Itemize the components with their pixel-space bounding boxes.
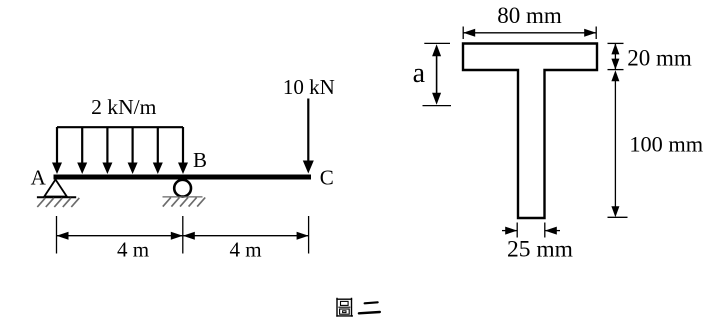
a dimension — [424, 42, 450, 44]
distributed load arrow 3 — [102, 127, 112, 174]
svg-text:10 kN: 10 kN — [283, 75, 335, 99]
distributed load arrow 6 — [178, 127, 188, 174]
svg-text:2 kN/m: 2 kN/m — [91, 95, 157, 119]
二 bottom stroke — [359, 312, 380, 313]
ground line at A — [37, 196, 76, 198]
圖 middle stroke — [338, 306, 350, 308]
100 mm dimension — [611, 70, 619, 81]
svg-text:B: B — [193, 148, 207, 172]
caption 圖二 (drawn glyphs) — [336, 298, 380, 317]
svg-text:100 mm: 100 mm — [629, 132, 703, 157]
svg-text:a: a — [413, 58, 426, 89]
80 mm dimension ticks — [462, 27, 464, 40]
svg-text:80 mm: 80 mm — [497, 3, 562, 28]
20 mm dimension — [608, 42, 624, 44]
distributed load arrow 1 — [52, 127, 62, 174]
roller support at B (circle) — [174, 180, 191, 197]
distributed load arrow 5 — [153, 127, 163, 174]
svg-text:4 m: 4 m — [229, 238, 261, 262]
svg-text:C: C — [320, 166, 334, 190]
hatching at B — [163, 198, 205, 207]
T cross-section outline — [463, 44, 597, 219]
dim arrowheads at B — [171, 232, 183, 240]
pin support at A (triangle) — [44, 180, 67, 197]
圖 inner top 口 — [341, 301, 349, 305]
dimension tick at A — [56, 216, 58, 254]
dim arrowhead left at A — [57, 232, 69, 240]
dimension line A-C — [57, 235, 309, 237]
point load 10 kN arrow — [303, 99, 314, 174]
圖 outer box — [336, 298, 353, 317]
80 mm dimension line — [463, 32, 596, 34]
distributed load arrow 4 — [128, 127, 138, 174]
svg-text:25 mm: 25 mm — [507, 237, 573, 263]
25 mm dimension ticks — [516, 223, 518, 238]
svg-text:4 m: 4 m — [117, 238, 149, 262]
hatching at A — [37, 198, 79, 207]
25 mm dimension arrows — [502, 230, 517, 232]
dimension tick at C — [308, 216, 310, 254]
beam AC — [54, 175, 312, 180]
svg-text:20 mm: 20 mm — [627, 46, 692, 71]
distributed load arrow 2 — [77, 127, 87, 174]
ground line at B — [163, 196, 203, 198]
dimension tick at B — [182, 216, 184, 254]
distributed load 2 kN/m top line — [57, 126, 183, 128]
圖 lower 回 outer — [340, 309, 350, 314]
圖 lower 回 inner — [343, 311, 346, 313]
dim arrowhead right at C — [297, 232, 309, 240]
svg-text:A: A — [31, 166, 47, 190]
二 top stroke — [365, 302, 378, 303]
